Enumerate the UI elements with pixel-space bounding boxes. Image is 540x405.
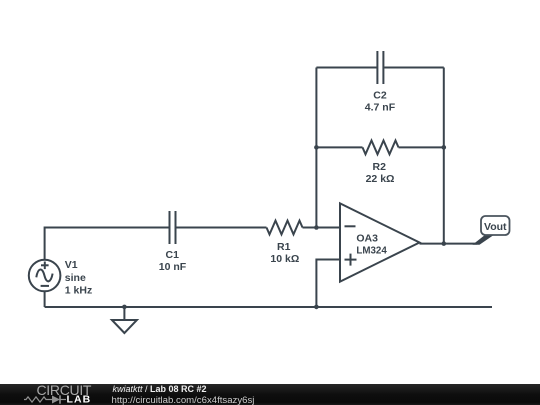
node junction R2 right [442, 145, 447, 150]
node junction minus input [314, 225, 319, 230]
wire op-amp output [420, 243, 478, 245]
wire feedback left vertical [315, 68, 317, 228]
capacitor C2 [376, 51, 378, 84]
svg-text:22 kΩ: 22 kΩ [366, 173, 395, 185]
capacitor C1 [169, 211, 171, 244]
resistor R2 [363, 141, 399, 155]
flag Vout tail [473, 234, 496, 245]
wire V1 top to C1 [45, 228, 169, 260]
ground [123, 307, 125, 320]
node junction R2 left [314, 145, 319, 150]
svg-text:Vout: Vout [484, 221, 507, 233]
svg-text:10 kΩ: 10 kΩ [270, 253, 299, 265]
node junction ground [122, 305, 127, 310]
wire C2 to right vertical [384, 67, 444, 69]
svg-text:4.7 nF: 4.7 nF [365, 101, 396, 113]
svg-text:C2: C2 [373, 89, 387, 101]
svg-text:V1: V1 [65, 259, 78, 271]
logo resistor zigzag [24, 397, 52, 402]
V1 minus symbol [41, 285, 49, 287]
svg-text:R1: R1 [277, 241, 291, 253]
svg-text:sine: sine [65, 272, 86, 284]
wire V1 bottom to rail [44, 291, 46, 307]
svg-text:C1: C1 [166, 249, 180, 261]
wire ground rail [45, 306, 492, 308]
wire C1 to R1 [176, 227, 266, 229]
wire R2 left [316, 146, 362, 148]
op-amp minus symbol [345, 225, 356, 227]
op-amp U1 triangle [340, 203, 420, 281]
wire feedback right vertical [443, 68, 445, 244]
voltage source V1 circle [29, 260, 61, 292]
logo diode [52, 396, 60, 404]
wire R1 to op-amp minus input [303, 227, 341, 229]
op-amp plus symbol [345, 259, 357, 261]
flag Vout box [481, 216, 510, 235]
wire op-amp plus input [316, 260, 340, 308]
node junction plus rail [314, 305, 319, 310]
svg-text:R2: R2 [373, 161, 387, 173]
svg-text:OA3: OA3 [356, 233, 378, 245]
wire R2 right [399, 146, 444, 148]
svg-text:1 kHz: 1 kHz [65, 284, 92, 296]
svg-text:10 nF: 10 nF [159, 261, 187, 273]
resistor R1 [267, 221, 303, 235]
svg-text:LAB: LAB [67, 394, 92, 405]
V1 plus symbol [41, 264, 49, 266]
node junction output [442, 241, 447, 246]
svg-text:LM324: LM324 [356, 245, 387, 257]
V1 sine wave [36, 269, 52, 281]
svg-text:kwiatktt / Lab 08 RC #2: kwiatktt / Lab 08 RC #2 [113, 384, 207, 394]
svg-text:http://circuitlab.com/c6x4ftsa: http://circuitlab.com/c6x4ftsazy6sj [112, 395, 255, 405]
wire top branch to C2 [316, 67, 376, 69]
